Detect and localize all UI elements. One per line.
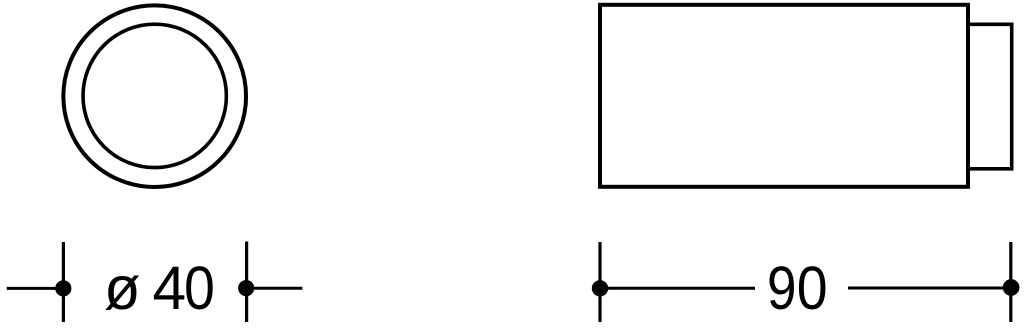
svg-text:0: 0	[184, 255, 215, 323]
diameter dimension: right extension tick	[245, 242, 248, 323]
length dimension: left line segment	[600, 287, 755, 290]
svg-text:9: 9	[767, 255, 797, 323]
front view outer circle	[63, 5, 246, 187]
digit 9 of label "90"	[767, 255, 797, 323]
diameter dimension: left extension tick	[62, 242, 65, 322]
front view inner circle	[83, 24, 226, 167]
svg-text:4: 4	[153, 254, 187, 322]
side view wall plate rectangle	[968, 24, 1012, 169]
digit 0 of label "90"	[797, 255, 828, 323]
diameter dimension: right outer line segment	[246, 287, 302, 290]
length dimension: right line segment	[848, 287, 1011, 290]
diameter dimension: left dot	[55, 280, 71, 296]
length dimension: left extension tick	[598, 242, 601, 322]
diameter symbol of label "ø 40"	[104, 253, 141, 322]
diameter dimension: left outer line segment	[7, 287, 63, 290]
length dimension: right dot	[1003, 279, 1020, 296]
svg-text:ø: ø	[104, 253, 141, 322]
length dimension: left dot	[592, 280, 608, 296]
diameter dimension: right dot	[238, 280, 254, 296]
side view body rectangle	[600, 5, 968, 187]
digit 4 of label "ø 40"	[153, 254, 187, 322]
digit 0 of label "ø 40"	[184, 255, 215, 323]
length dimension: right extension tick	[1009, 242, 1012, 322]
svg-text:0: 0	[797, 255, 828, 323]
